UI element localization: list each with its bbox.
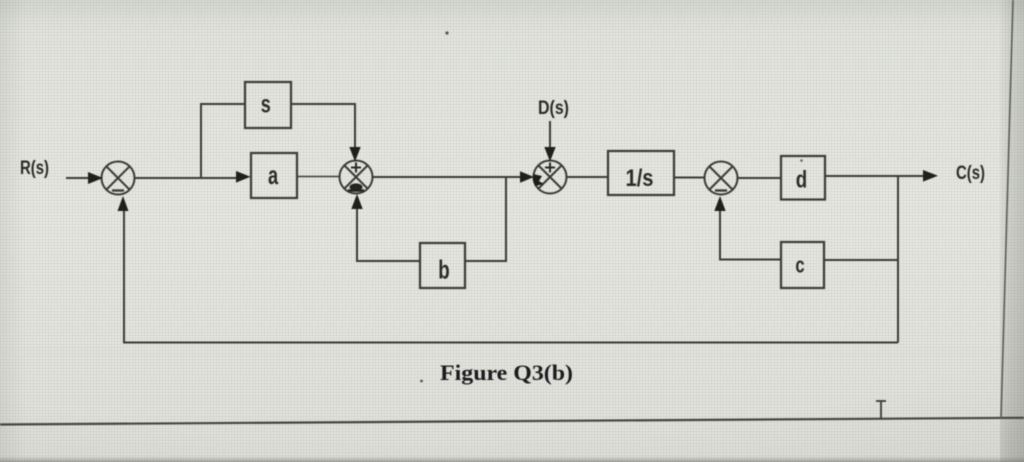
- svg-text:Figure Q3(b): Figure Q3(b): [440, 360, 573, 385]
- svg-text:D(s): D(s): [538, 98, 569, 119]
- svg-text:C(s): C(s): [956, 163, 985, 184]
- svg-text:R(s): R(s): [20, 158, 49, 179]
- svg-text:1/s: 1/s: [626, 165, 654, 192]
- svg-text:b: b: [438, 254, 449, 284]
- svg-text:d: d: [796, 166, 807, 193]
- svg-text:c: c: [795, 253, 804, 278]
- svg-text:a: a: [268, 161, 279, 190]
- svg-text:s: s: [261, 90, 271, 119]
